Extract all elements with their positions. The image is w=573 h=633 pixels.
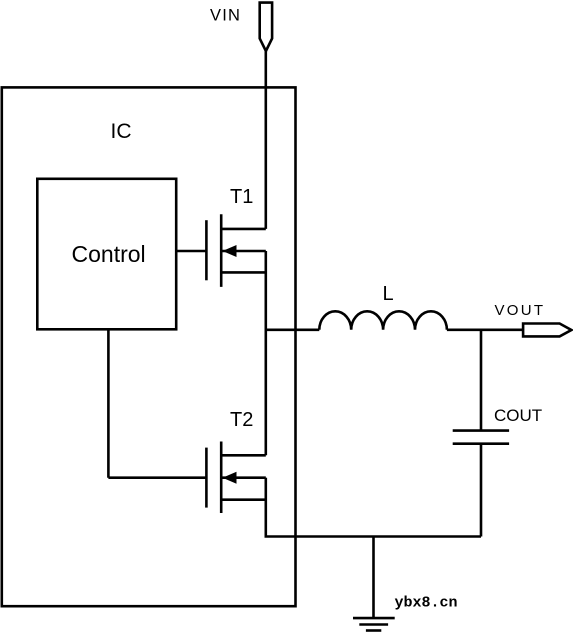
svg-text:Control: Control (72, 241, 146, 267)
svg-text:L: L (383, 283, 394, 305)
svg-text:VIN: VIN (210, 6, 241, 24)
svg-text:IC: IC (111, 120, 132, 143)
svg-text:T2: T2 (230, 409, 253, 431)
svg-text:VOUT: VOUT (495, 302, 546, 319)
svg-text:COUT: COUT (494, 406, 542, 425)
svg-text:ybx8.cn: ybx8.cn (395, 595, 458, 612)
svg-text:T1: T1 (230, 186, 253, 208)
